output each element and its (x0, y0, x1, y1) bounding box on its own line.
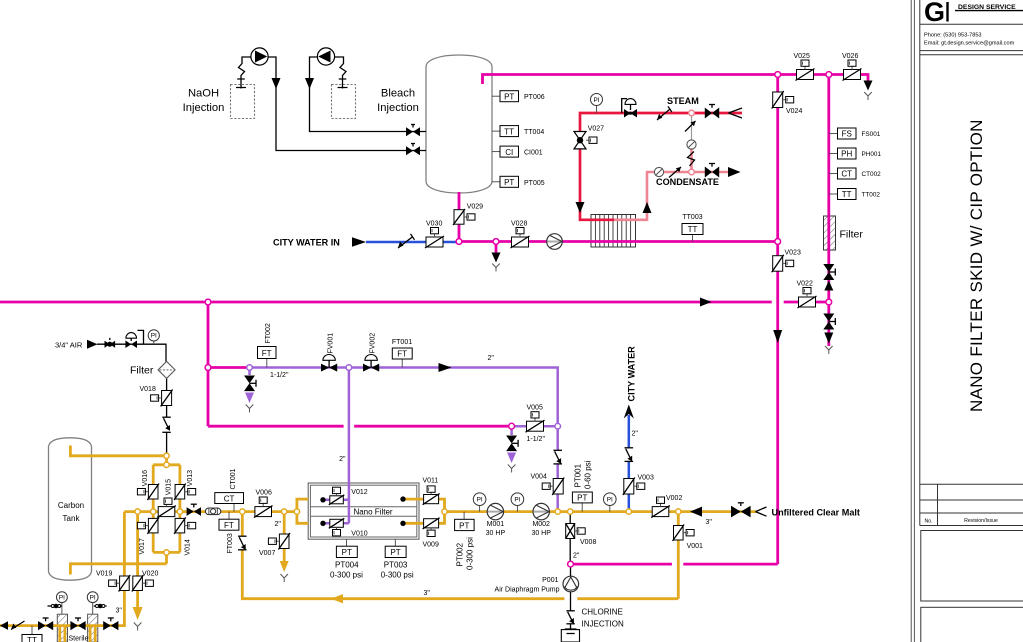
svg-text:V027: V027 (588, 126, 604, 133)
svg-text:PI: PI (90, 595, 96, 602)
valve V012 (329, 487, 368, 505)
valve V013 (174, 470, 196, 500)
air filter diamond (158, 361, 175, 378)
svg-text:0-300 psi: 0-300 psi (330, 571, 363, 580)
valve V003 (623, 475, 654, 496)
svg-text:Nano Filter: Nano Filter (353, 507, 392, 516)
pump bleach metering (317, 48, 334, 65)
wire CIP return bottom (571, 563, 778, 566)
steam flow arrow down (576, 202, 585, 213)
junction manifold top (164, 462, 169, 467)
pump city water circulation (547, 234, 563, 250)
flow arrow up filter branch (824, 281, 833, 291)
svg-text:CHLORINE: CHLORINE (582, 608, 623, 617)
revision table (920, 483, 1023, 485)
chlorine check valve (566, 611, 574, 624)
junction wash header start (247, 365, 253, 371)
drain arrow filter branch (824, 333, 833, 344)
valve V016 (137, 470, 159, 500)
valve V008 (566, 524, 597, 547)
svg-text:FS: FS (842, 130, 852, 139)
valve V025 (794, 53, 815, 81)
instrument TT sterile (22, 626, 42, 642)
svg-text:FT001: FT001 (392, 339, 412, 346)
instrument FT001 (392, 339, 412, 368)
svg-text:FS001: FS001 (862, 131, 881, 138)
valve V026 (842, 53, 862, 81)
svg-text:V001: V001 (687, 543, 703, 550)
svg-text:V015: V015 (165, 479, 172, 495)
valve steam shutoff (705, 105, 719, 119)
wire chlorine injection line (570, 564, 572, 630)
VESSELS (49, 55, 836, 642)
svg-text:G: G (924, 0, 945, 27)
valve V029 (453, 204, 483, 226)
svg-text:FV002: FV002 (370, 333, 377, 354)
svg-text:V010: V010 (351, 531, 367, 538)
svg-text:CI001: CI001 (524, 150, 543, 157)
check valve V004 line (553, 450, 562, 464)
svg-text:Email: gt.design.service@gmai: Email: gt.design.service@gmail.com (924, 41, 1015, 47)
instrument PT004 (330, 539, 363, 579)
svg-text:TT: TT (504, 127, 514, 136)
wire nano filter internal gold stubs (403, 499, 417, 523)
svg-text:2": 2" (488, 355, 495, 362)
wire purple drop to nano filter (348, 368, 351, 524)
svg-text:PT005: PT005 (524, 180, 545, 187)
wire carbon tank bottom outlet (70, 564, 166, 575)
valve process shutoff left (187, 504, 201, 516)
sheet border double line (910, 0, 912, 642)
junction concentrate return (240, 509, 245, 514)
instrument PT005 (492, 176, 545, 187)
valve V010 (329, 518, 368, 537)
wire carbon tank top outlet (70, 446, 166, 465)
Sterile filter housing 2 (88, 614, 98, 642)
valve malt shutoff (731, 503, 751, 518)
svg-text:PT002: PT002 (456, 542, 465, 566)
svg-text:FT: FT (224, 521, 234, 530)
junction tank outlet (456, 239, 462, 245)
wire V019 drop to sterile filters (0, 512, 124, 626)
wire steam supply (580, 113, 742, 220)
svg-text:V020: V020 (142, 571, 158, 578)
pump P001 air diaphragm (495, 576, 579, 593)
svg-text:PH: PH (841, 150, 852, 159)
svg-text:CONDENSATE: CONDENSATE (656, 177, 719, 187)
svg-text:V002: V002 (666, 495, 682, 502)
instrument TT004 (492, 126, 544, 137)
pump NaOH metering (251, 48, 268, 65)
check valve steam (657, 106, 672, 120)
wire filter branch vertical right (827, 75, 830, 347)
Chlorine injection tank (561, 630, 579, 642)
wire city water inlet (366, 241, 459, 244)
junction V004 drop (555, 423, 561, 429)
svg-text:CITY WATER IN: CITY WATER IN (273, 238, 340, 248)
svg-text:2": 2" (275, 521, 282, 528)
junction nano outlet (442, 509, 447, 514)
instrument PI discharge (604, 493, 617, 512)
TITLEBLOCK (911, 0, 1023, 642)
junction manifold right (177, 509, 182, 514)
svg-text:Sterile: Sterile (69, 636, 89, 642)
air inlet arrow (87, 340, 98, 349)
svg-text:INJECTION: INJECTION (582, 620, 624, 629)
wire purple drain stub FV junction (248, 368, 251, 376)
valve V009 (423, 518, 440, 549)
junction V004 gold (555, 509, 560, 514)
svg-text:PI: PI (151, 333, 157, 340)
junction top header filter branch (826, 72, 832, 78)
instrument FS001 (829, 128, 881, 139)
instrument PI M002 (511, 493, 524, 512)
wire tank bottom outlet to city water line (458, 192, 461, 242)
wire purple nano filter internal stubs (325, 500, 349, 524)
valve V014 (174, 517, 196, 555)
SYMBOLS BOTTOM (0, 453, 860, 642)
condensate flow arrow up (643, 202, 652, 213)
svg-text:V025: V025 (794, 53, 810, 60)
wire bleach pump suction (334, 57, 346, 89)
check valve city water right (625, 448, 634, 462)
svg-text:0-300 psi: 0-300 psi (466, 537, 475, 570)
valve V022 (797, 281, 817, 309)
wire CIP return vertical right (776, 75, 779, 565)
SYMBOLS MIDDLE (55, 323, 654, 495)
condensate trap (654, 167, 663, 176)
svg-text:V008: V008 (580, 539, 596, 546)
wire purple drain stub V005 junction (510, 426, 513, 435)
drain Y V007 (280, 574, 288, 582)
LABELS (0, 0, 1, 1)
instrument FT002 (258, 323, 277, 367)
svg-text:PI: PI (59, 595, 65, 602)
valve FV002 (363, 333, 379, 372)
valve V004 (531, 474, 565, 496)
instrument FT003 (219, 512, 239, 554)
svg-text:0-60 psi: 0-60 psi (584, 460, 593, 489)
svg-text:V004: V004 (531, 474, 547, 481)
svg-text:FT: FT (262, 349, 272, 358)
instrument PI steam (591, 94, 603, 114)
svg-text:P001: P001 (542, 577, 558, 584)
valve V006 (254, 490, 273, 518)
wire main CIP header horizontal (0, 301, 829, 304)
valve V002 (651, 495, 682, 518)
Nano filter unit box (308, 483, 419, 539)
svg-text:PH001: PH001 (862, 151, 882, 158)
air pressure regulator (125, 330, 143, 348)
instrument PI sterile 1 (57, 592, 68, 614)
Bleach injection tank (dashed) (332, 85, 356, 119)
wire nano filter feed split (297, 499, 308, 523)
valve V023 (772, 250, 801, 273)
CIP return flow arrow down (773, 330, 782, 343)
svg-text:Revision/Issue: Revision/Issue (964, 518, 998, 524)
condensate outlet arrow (728, 167, 741, 177)
svg-text:PI: PI (607, 497, 613, 504)
drain valve V005 junction (506, 436, 518, 452)
svg-text:NaOH: NaOH (188, 88, 219, 100)
wire V007 drain drop (283, 512, 286, 561)
svg-text:Bleach: Bleach (381, 88, 415, 100)
junction V001 tee (676, 509, 681, 514)
CIP tank vessel (426, 55, 492, 193)
steam trap check (685, 121, 696, 132)
svg-text:2": 2" (632, 431, 639, 438)
wire city water / CIP water main (459, 240, 778, 243)
valve NaOH tank inlet (406, 144, 420, 156)
svg-text:V009: V009 (423, 542, 439, 549)
instrument PI M001 (473, 493, 486, 512)
svg-text:PT: PT (577, 494, 587, 503)
chlorine tank quill (565, 629, 577, 634)
svg-text:V014: V014 (185, 539, 192, 555)
svg-text:DESIGN SERVICE: DESIGN SERVICE (958, 4, 1016, 11)
svg-text:FT: FT (397, 350, 407, 359)
svg-text:TT004: TT004 (524, 129, 544, 136)
instrument PT006 (492, 91, 545, 102)
junction V028 drain (493, 239, 499, 245)
drain arrow V007 (280, 561, 289, 572)
wire steam trap drop (691, 115, 693, 141)
valve FV001 (321, 333, 337, 372)
svg-text:FV001: FV001 (328, 333, 335, 354)
NaOH injection tank (dashed) (231, 85, 255, 119)
valve V001 (673, 525, 704, 551)
wire NaOH injection to tank (268, 57, 427, 151)
svg-text:V019: V019 (96, 571, 112, 578)
wire V008 connection (569, 512, 571, 564)
steam trap (687, 140, 696, 149)
svg-text:Injection: Injection (377, 102, 419, 114)
svg-text:TT002: TT002 (862, 192, 881, 199)
junction city water header (775, 239, 781, 245)
svg-text:PI: PI (514, 497, 520, 504)
svg-text:CT001: CT001 (230, 468, 237, 489)
svg-text:3/4" AIR: 3/4" AIR (55, 341, 83, 350)
drain valve FV junction (244, 376, 256, 392)
valve V024 (772, 91, 803, 115)
drain Y V005 junction (508, 465, 516, 473)
valve filter isolation top (823, 264, 835, 280)
flow arrow bleach down (305, 78, 314, 89)
svg-text:Tank: Tank (63, 514, 81, 523)
svg-text:PT006: PT006 (524, 94, 545, 101)
air ball valve (105, 338, 116, 348)
valve V019 (96, 571, 130, 592)
junction city water gold (626, 509, 631, 514)
wire V020 drain drop (136, 512, 139, 607)
wire bleach injection to tank (310, 57, 427, 132)
check valve FT003 drop (238, 536, 247, 550)
wire branch to FV header (208, 366, 250, 369)
valve bleach tank inlet (406, 125, 420, 137)
svg-text:V029: V029 (467, 204, 483, 211)
svg-text:V013: V013 (187, 470, 194, 486)
sterile housing internal tubes (60, 626, 95, 642)
instrument PT003 (381, 539, 414, 579)
instrument TT003 (682, 214, 703, 242)
instrument PT001 (572, 460, 592, 511)
drain Y V020 (134, 623, 142, 631)
svg-text:TT: TT (27, 636, 37, 642)
wire air line drop to manifold (166, 378, 168, 456)
svg-text:30 HP: 30 HP (486, 530, 506, 537)
valve sterile 3 (103, 618, 118, 630)
malt flow arrow (690, 507, 702, 517)
svg-text:NANO FILTER SKID W/ CIP OPTION: NANO FILTER SKID W/ CIP OPTION (967, 119, 986, 412)
instrument PH001 (829, 148, 882, 159)
wire compressed air line (97, 344, 166, 361)
diaphragm seal 1 (48, 604, 62, 609)
svg-text:V024: V024 (786, 108, 802, 115)
junction filter branch (826, 299, 832, 305)
svg-text:Unfiltered Clear Malt: Unfiltered Clear Malt (772, 507, 860, 517)
lower boxes (921, 531, 1023, 602)
wire NaOH pump suction (239, 57, 252, 89)
svg-text:V012: V012 (351, 489, 367, 496)
svg-text:TT: TT (842, 190, 852, 199)
condensate check valve (669, 167, 681, 178)
svg-text:V018: V018 (140, 386, 156, 393)
instrument TT002 (829, 189, 881, 200)
svg-text:PT: PT (342, 548, 352, 557)
valve V017 (137, 517, 159, 554)
flow arrow city water in (352, 237, 366, 246)
svg-text:CT: CT (224, 494, 235, 503)
junction V005 (509, 423, 515, 429)
svg-text:FT002: FT002 (265, 323, 272, 343)
svg-text:Injection: Injection (183, 102, 225, 114)
svg-text:FT003: FT003 (227, 533, 234, 553)
heat exchanger E1 (591, 215, 636, 248)
valve filter drain (823, 314, 835, 330)
valve V007 (259, 533, 290, 557)
CIP filter (hatched) (824, 216, 836, 250)
steam pressure regulator with pilot (622, 99, 637, 118)
junction V008 tee (568, 509, 573, 514)
drain arrow top right (864, 81, 873, 91)
wire valve manifold frame (153, 465, 180, 564)
svg-text:TT003: TT003 (682, 214, 702, 221)
svg-text:V030: V030 (426, 221, 442, 228)
svg-text:V017: V017 (139, 538, 146, 554)
wire wash water line (208, 425, 512, 428)
wire nano filter outlet split (417, 499, 445, 523)
svg-text:CI: CI (505, 148, 513, 157)
drain arrow V005 junction (507, 453, 516, 464)
svg-text:PT001: PT001 (574, 463, 583, 487)
junction nano purple drop (346, 365, 352, 371)
drain arrow below V028 junction (492, 253, 501, 263)
svg-text:1-1/2": 1-1/2" (270, 372, 289, 379)
junction manifold bottom (164, 550, 169, 555)
air check valve (162, 417, 171, 432)
check valve city water (398, 234, 415, 248)
flow arrow NaOH down (272, 78, 281, 89)
junction main header left (205, 299, 211, 305)
malt inlet arrow (756, 507, 767, 516)
pump M001 (486, 503, 506, 536)
junction V007 tee (282, 509, 287, 514)
svg-text:M001: M001 (487, 521, 505, 528)
instrument CT001 (215, 468, 244, 511)
valve V015 (157, 479, 176, 518)
svg-text:PT004: PT004 (335, 561, 359, 570)
svg-text:V003: V003 (638, 475, 654, 482)
svg-text:3": 3" (424, 590, 431, 597)
Sterile filter housing 1 (57, 614, 67, 642)
svg-text:V016: V016 (142, 470, 149, 486)
bleach injection quill (338, 79, 348, 88)
instrument CT002 (829, 168, 881, 179)
valve V005 (526, 405, 545, 433)
wire city water branch right (628, 415, 631, 512)
svg-text:Filter: Filter (840, 229, 864, 241)
junction air/tank top (164, 453, 169, 458)
wire V005 to V004 drop (512, 426, 558, 511)
pump M002 (531, 503, 551, 536)
svg-text:PI: PI (477, 497, 483, 504)
main header flow arrow (700, 298, 712, 307)
drain arrow V020 (133, 607, 143, 620)
wire CIP drop to wash header (207, 302, 210, 426)
drain Y FV junction (246, 405, 254, 413)
svg-text:V006: V006 (256, 490, 272, 497)
svg-text:1-1/2": 1-1/2" (527, 436, 546, 443)
wire concentrate return line (242, 512, 678, 599)
junction condensate (689, 169, 695, 175)
wire drain stub at V028 junction (495, 242, 498, 253)
instrument PT002 (455, 512, 475, 570)
instrument PI air (148, 330, 159, 344)
valve sterile 1 (38, 618, 53, 630)
title block frame (919, 0, 921, 526)
svg-text:V005: V005 (527, 405, 543, 412)
svg-text:Carbon: Carbon (58, 501, 84, 510)
sight glass (205, 508, 220, 515)
instrument CI001 (492, 146, 543, 157)
junction nano feed (294, 509, 299, 514)
diaphragm seal 2 (94, 604, 107, 609)
steam supply arrow (729, 108, 743, 118)
wash header flow arrow (439, 363, 452, 372)
wire main process line (124, 510, 756, 513)
svg-text:V007: V007 (259, 550, 275, 557)
instrument PI sterile 2 (87, 592, 98, 614)
steam trap flex check (688, 152, 695, 167)
junction manifold left (151, 509, 156, 514)
sterile line check valve (11, 621, 25, 630)
svg-text:V026: V026 (842, 53, 858, 60)
svg-text:CITY WATER: CITY WATER (627, 346, 637, 402)
nano membrane dots top (320, 497, 325, 502)
drain Y top right (864, 92, 872, 100)
valve sterile 2 (70, 618, 85, 630)
wire CIP supply from tank top to right header (483, 75, 869, 85)
svg-text:PT: PT (390, 548, 400, 557)
svg-text:PT003: PT003 (384, 561, 408, 570)
svg-text:No.: No. (924, 519, 932, 525)
svg-text:PI: PI (593, 97, 599, 104)
valve V028 (511, 221, 530, 249)
svg-text:V022: V022 (797, 281, 813, 288)
svg-text:0-300 psi: 0-300 psi (381, 571, 414, 580)
svg-text:STEAM: STEAM (667, 96, 699, 106)
svg-text:V028: V028 (511, 221, 527, 228)
